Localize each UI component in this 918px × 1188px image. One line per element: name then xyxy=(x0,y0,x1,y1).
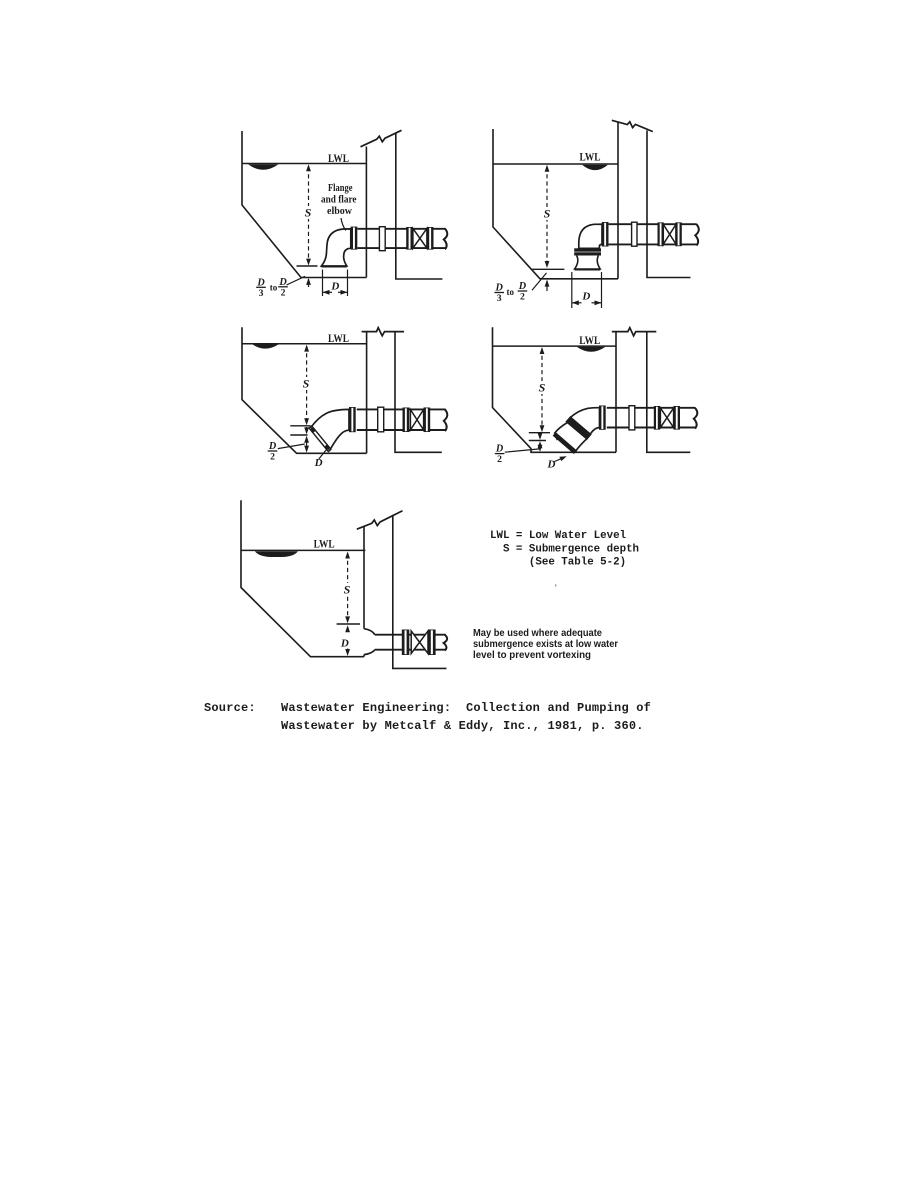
diagram 3: D/2 clearance double arrow xyxy=(306,438,308,452)
diagram 4: leader from D/2 label to clearance arrows xyxy=(505,449,540,452)
diagram 5: water surface line at LWL xyxy=(241,549,365,551)
diagram 3: wet well left wall and sloped bottom xyxy=(242,327,367,453)
diagram 1: wall break symbol xyxy=(361,130,402,147)
diagram 4: S dimension upper arrow xyxy=(540,347,545,354)
diagram 3: pump station left wall xyxy=(366,332,368,454)
diagram 1: submergence S dimension line (dashed) xyxy=(308,167,310,263)
svg-text:and flare: and flare xyxy=(321,195,357,206)
diagram 5: S dimension upper arrow xyxy=(345,552,350,559)
diagram 2: pipe end break squiggle xyxy=(695,224,699,245)
diagram 3: valve inlet flange pair xyxy=(403,408,410,433)
svg-text:D: D xyxy=(314,457,323,469)
diagram 5: gate valve bowtie xyxy=(411,631,419,654)
diagram 3: pipe end break squiggle xyxy=(444,409,448,431)
svg-text:LWL: LWL xyxy=(328,333,349,345)
diagram 4: mouth band upper arrowhead xyxy=(554,434,560,441)
diagram 2: floor clearance arrow below floor xyxy=(546,281,548,291)
diagram 5: D pipe-diameter double arrow xyxy=(345,625,350,632)
svg-text:Wastewater by Metcalf & Eddy,: Wastewater by Metcalf & Eddy, Inc., 1981… xyxy=(281,719,644,733)
diagram 1: S label xyxy=(302,206,314,219)
diagram 3: arrow from upper tick to lower tick xyxy=(306,427,308,432)
diagram 4: pipe body horizontal suction line xyxy=(607,407,695,409)
diagram 3: intake mouth upper tick line xyxy=(290,425,310,427)
svg-text:Wastewater Engineering: Colle: Wastewater Engineering: Collection and P… xyxy=(281,701,651,715)
svg-text:submergence exists at low wate: submergence exists at low water xyxy=(473,639,618,650)
diagram 2: wall break symbol xyxy=(612,120,653,131)
diagram 1: floor clearance arrow below floor xyxy=(308,279,310,287)
diagram 1: flare mouth level tick line xyxy=(297,265,318,267)
diagram 5: S dimension lower arrow xyxy=(345,616,350,623)
diagram 4: pump station right wall with floor ledge xyxy=(647,332,691,453)
diagram 3: pipe body horizontal suction line xyxy=(357,408,446,410)
diagram 4: intake mouth upper tick line xyxy=(529,432,550,434)
diagram 3: S label xyxy=(300,377,312,390)
svg-text:LWL = Low Water Level: LWL = Low Water Level xyxy=(490,530,627,542)
svg-text:2: 2 xyxy=(520,292,525,303)
diagram 2: pipe body horizontal suction line xyxy=(609,223,697,225)
diagram 1: S dimension upper arrow xyxy=(306,164,311,171)
diagram 4: bell inlet flange band (dark) xyxy=(566,417,591,439)
diagram 1: flange and flare elbow (90 deg suction elbow) xyxy=(321,229,350,266)
diagram 1: D dimension extension lines xyxy=(322,270,324,297)
svg-text:Flange: Flange xyxy=(328,183,353,194)
diagram 4: valve inlet flange pair xyxy=(654,406,660,430)
diagram 2: bell flange bars xyxy=(574,248,601,251)
svg-text:2: 2 xyxy=(270,452,275,463)
diagram 3: mitered intake elbow body xyxy=(311,409,349,450)
diagram 4: pipe end break squiggle xyxy=(694,408,698,429)
svg-text:D: D xyxy=(547,459,556,471)
diagram 3: water surface shading xyxy=(253,344,279,348)
svg-text:2: 2 xyxy=(281,287,286,298)
diagram 4: gate valve bowtie xyxy=(660,408,667,428)
diagram 2: valve outlet flange pair xyxy=(675,222,682,246)
diagram 2: wet well left wall and sloped bottom xyxy=(493,129,618,279)
diagram 2: bell mouth elbow body xyxy=(579,224,602,248)
diagram 5: valve outlet flange pair xyxy=(428,630,436,656)
svg-text:D: D xyxy=(340,637,349,649)
diagram 2: pump station right wall with floor ledge xyxy=(647,131,691,278)
svg-text:S = Submergence depth: S = Submergence depth xyxy=(490,543,639,555)
svg-text:May be used where adequate: May be used where adequate xyxy=(473,628,602,639)
diagram 1: pipe body horizontal suction line xyxy=(357,228,445,230)
diagram 3: gate valve bowtie xyxy=(410,410,417,431)
diagram 4: valve outlet flange pair xyxy=(674,406,681,430)
diagram 5: inlet flare through wall xyxy=(364,629,375,635)
diagram 5: pipe crown tick line xyxy=(337,623,360,625)
diagram 1: valve inlet flange pair xyxy=(406,227,413,250)
diagram 5: wet well left wall and sloped bottom xyxy=(241,500,364,657)
diagram 1: pipe end break squiggle xyxy=(444,229,448,250)
diagram 4: wet well left wall and sloped bottom xyxy=(493,327,617,452)
svg-text:(See Table 5-2): (See Table 5-2) xyxy=(490,557,626,569)
diagram 3: elbow outlet flange pair xyxy=(349,407,356,432)
diagram 2: bell mouth flare xyxy=(575,256,601,270)
svg-text:3: 3 xyxy=(497,293,502,304)
diagram 2: pump station left wall xyxy=(617,122,619,279)
diagram 4: elbow outlet flange pair xyxy=(599,406,606,430)
diagram 4: water surface line at LWL xyxy=(493,345,617,347)
diagram 5: pump station left wall stub below pipe xyxy=(363,655,365,657)
diagram 3: intake mouth band (D measurement) xyxy=(309,426,331,452)
diagram 3: S dimension upper arrow xyxy=(304,345,309,352)
diagram 2: submergence S dimension line (dashed) xyxy=(546,167,548,264)
diagram 4: angled bell interior xyxy=(554,423,588,452)
diagram 3: leader from D label to mouth band xyxy=(319,449,327,459)
diagram 5: S label xyxy=(341,583,353,596)
diagram 3: intake mouth lower tick line xyxy=(290,434,307,436)
diagram 4: S label xyxy=(536,381,548,394)
svg-text:elbow: elbow xyxy=(327,206,352,217)
diagram 2: valve inlet flange pair xyxy=(658,222,664,246)
diagram 4: arrow from upper tick to lower tick xyxy=(539,434,541,438)
diagram 3: valve outlet flange pair xyxy=(424,408,431,433)
diagram 2: water surface line at LWL xyxy=(493,163,618,165)
diagram 1: pipe mid flange xyxy=(379,227,385,251)
svg-text:to: to xyxy=(507,287,515,297)
diagram 5: pump station left wall above pipe xyxy=(363,527,365,629)
diagram 1: pump station right wall with floor ledge xyxy=(396,133,443,279)
svg-text:S: S xyxy=(305,206,312,220)
diagram 2: pipe mid flange xyxy=(632,222,637,246)
diagram 4: bell side curves xyxy=(554,423,567,434)
diagram 1: pump station left wall xyxy=(365,147,367,278)
diagram 3: pump station right wall with floor ledge xyxy=(395,332,442,453)
diagram 3: water surface line at LWL xyxy=(242,343,367,345)
diagram 1: water surface shading xyxy=(248,164,279,170)
diagram 4: mitered elbow body above flange xyxy=(570,408,599,435)
diagram 4: pump station left wall xyxy=(615,332,617,453)
svg-text:S: S xyxy=(344,583,351,597)
diagram 4: intake mouth lower tick line xyxy=(529,440,546,442)
svg-text:LWL: LWL xyxy=(579,335,600,347)
diagram 5: wall break symbol xyxy=(357,511,403,530)
svg-text:LWL: LWL xyxy=(580,151,601,163)
diagram 1: leader from elbow label to elbow xyxy=(341,218,346,231)
diagram 4: bell mouth band (dark, D measurement) xyxy=(553,432,578,454)
diagram 1: gate valve bowtie xyxy=(413,229,420,249)
diagram 5: pump station right wall with floor ledge xyxy=(393,515,447,669)
diagram 1: elbow outlet flange pair xyxy=(351,227,358,250)
diagram 3: wall break symbol xyxy=(362,328,405,336)
diagram 2: D dimension extension lines xyxy=(571,272,573,308)
diagram 2: bell mouth level tick line xyxy=(532,268,564,270)
diagram 1: D dimension arrows xyxy=(323,291,333,293)
diagram 3: pipe mid flange xyxy=(378,407,384,432)
svg-text:Source:: Source: xyxy=(204,701,256,715)
diagram 2: elbow outlet flange pair xyxy=(602,222,609,247)
svg-text:3: 3 xyxy=(259,288,264,299)
diagram 2: gate valve bowtie xyxy=(663,224,669,244)
diagram 5: water surface shading xyxy=(255,551,298,557)
diagram 5: pipe body horizontal suction line xyxy=(375,634,446,636)
diagram 1: valve outlet flange pair xyxy=(427,227,434,250)
svg-text:to: to xyxy=(270,283,278,293)
diagram 4: submergence S dimension line (dashed) xyxy=(541,349,543,429)
diagram 4: D/2 clearance double arrow xyxy=(539,443,541,451)
diagram 1: wet well left wall and sloped bottom xyxy=(242,131,366,278)
diagram 2: S dimension upper arrow xyxy=(545,165,550,172)
diagram 4: water surface shading xyxy=(577,347,606,352)
svg-text:': ' xyxy=(555,583,557,593)
diagram 1: S dimension lower arrow xyxy=(306,259,311,266)
svg-text:LWL: LWL xyxy=(314,539,335,551)
diagram 4: S dimension lower arrow xyxy=(540,425,545,432)
diagram 3: mouth band end arrowheads xyxy=(310,426,316,433)
diagram 2: leader from D/3-D/2 label to mouth gap xyxy=(532,273,547,290)
diagram 4: pipe mid flange xyxy=(629,406,635,430)
svg-text:level to prevent vortexing: level to prevent vortexing xyxy=(473,650,591,661)
diagram 3: leader from D/2 label to clearance arrows xyxy=(278,444,305,449)
diagram 2: water surface shading xyxy=(582,165,608,170)
svg-text:S: S xyxy=(303,377,310,391)
diagram 5: valve inlet flange pair xyxy=(402,630,410,656)
diagram 5: pipe end break squiggle xyxy=(444,635,448,651)
diagram 2: S label xyxy=(541,207,553,220)
svg-text:S: S xyxy=(544,207,551,221)
svg-text:LWL: LWL xyxy=(328,153,349,165)
svg-text:D: D xyxy=(330,281,339,293)
diagram 1: water surface line at LWL xyxy=(242,163,366,165)
diagram 3: submergence S dimension line (dashed) xyxy=(306,346,308,420)
svg-text:S: S xyxy=(539,381,546,395)
diagram 2: D dimension arrows xyxy=(572,302,582,304)
svg-text:D: D xyxy=(581,290,590,302)
diagram 1: leader from D/3-D/2 label to floor corner xyxy=(287,276,306,285)
diagram 4: wall break symbol xyxy=(612,328,657,336)
diagram 4: leader arrow from D label to mouth band xyxy=(555,457,565,461)
diagram 3: S dimension lower arrow xyxy=(304,418,309,425)
diagram 2: S dimension lower arrow xyxy=(545,261,550,268)
svg-text:2: 2 xyxy=(497,454,502,465)
diagram 5: submergence S dimension line (dashed) xyxy=(347,554,349,620)
